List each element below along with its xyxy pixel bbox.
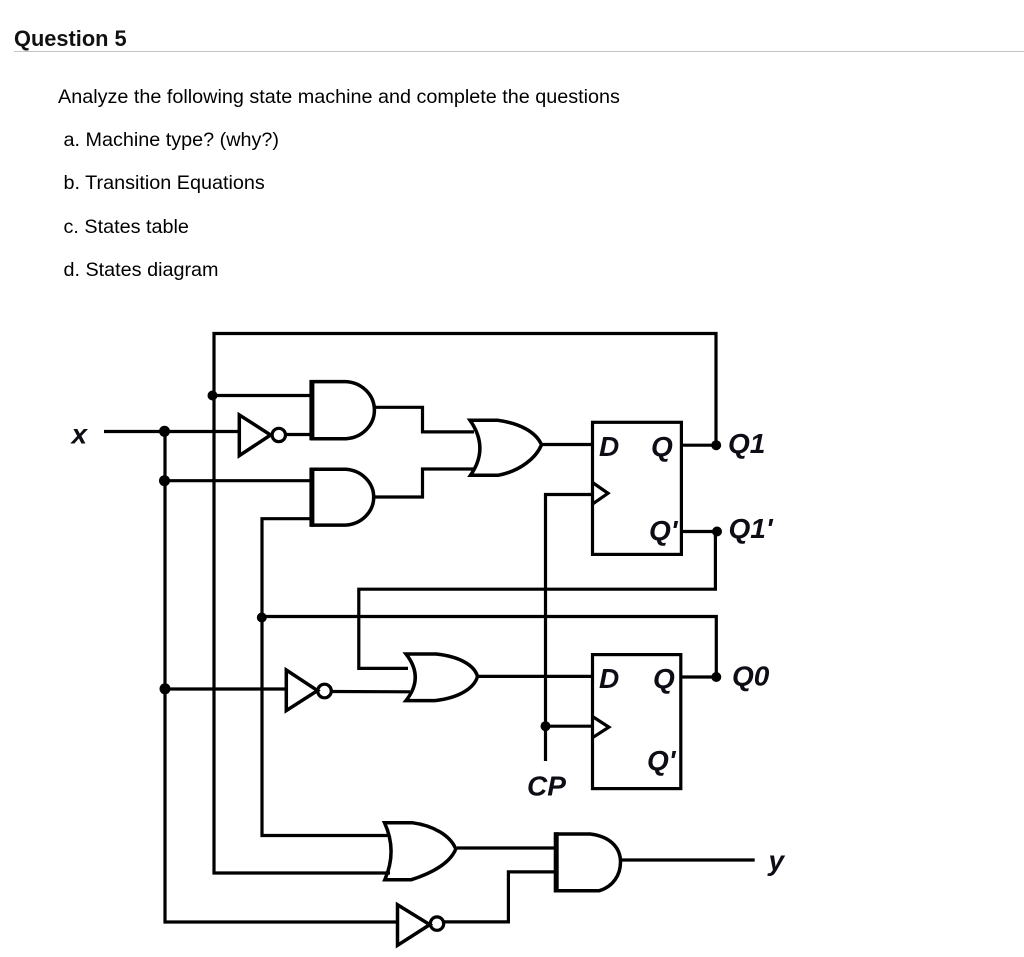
wire: x branch to inverter U2 xyxy=(165,687,288,690)
wire: OR3 output to AND3 top input xyxy=(457,846,555,849)
svg-text:CP: CP xyxy=(527,771,566,802)
junction dot Q0 feedback xyxy=(257,613,267,623)
svg-text:Q': Q' xyxy=(649,515,679,546)
junction dot Q1 feedback xyxy=(208,391,218,401)
wire: inverter U1 output to AND1 bottom input xyxy=(286,433,313,436)
wire: Q1 feedback (top loop from Q1 node to OR3 bottom input) xyxy=(214,334,716,874)
wire: AND3 output to y xyxy=(620,858,755,861)
wire: inverter U2 output to OR2 bottom input xyxy=(331,690,410,693)
junction dot on x input xyxy=(159,426,170,437)
svg-text:Q0: Q0 xyxy=(732,661,770,692)
D flip-flop FF2 xyxy=(593,655,681,789)
svg-text:Q1': Q1' xyxy=(729,513,774,544)
wire: FF2 Q output xyxy=(681,675,717,678)
svg-text:y: y xyxy=(767,845,786,876)
D flip-flop FF1 xyxy=(593,422,682,554)
wire: branch to AND1 top input xyxy=(214,394,312,397)
wire: Q1' feedback to OR2 top input xyxy=(359,532,716,669)
svg-text:D: D xyxy=(599,431,619,462)
OR gate O2 xyxy=(406,654,478,701)
junction dot Q0 xyxy=(711,672,721,682)
inverter U2 xyxy=(286,670,331,711)
OR gate O3 xyxy=(385,823,456,880)
junction dot Q1' xyxy=(712,527,722,537)
OR gate O1 xyxy=(470,420,542,475)
inverter U3 xyxy=(398,905,444,946)
svg-text:D: D xyxy=(599,663,619,694)
svg-text:Q: Q xyxy=(651,431,673,462)
wire: Q0 feedback line xyxy=(262,617,717,678)
wire: x branch to AND2 top input xyxy=(165,479,312,482)
wire: OR1 output to FF1 D input xyxy=(542,443,593,446)
wire: Q0 vertical bus AND2 input to OR3 top input xyxy=(262,519,390,836)
AND gate A2 xyxy=(312,469,374,525)
wire: FF1 Q output xyxy=(681,444,716,447)
junction dot CP xyxy=(541,721,551,731)
wire: CP clock line xyxy=(546,495,593,762)
svg-text:x: x xyxy=(70,419,89,450)
wire: AND2 output to OR1 bottom input xyxy=(375,469,475,497)
junction dot x bus upper xyxy=(159,475,170,486)
wire: x vertical bus down to bottom inverter xyxy=(165,432,399,923)
inverter U1 xyxy=(239,415,285,456)
AND gate A3 xyxy=(556,834,621,891)
svg-text:Q: Q xyxy=(653,663,675,694)
paragraph xyxy=(58,86,620,109)
AND gate A1 xyxy=(312,382,374,439)
wire: FF1 Q' output xyxy=(681,530,717,533)
svg-text:Q': Q' xyxy=(647,745,677,776)
wire: AND3 bottom input from inverter U3 xyxy=(443,872,555,922)
wire: x input horizontal xyxy=(104,430,238,433)
heading xyxy=(14,26,127,52)
horizontal rule xyxy=(14,51,1024,53)
junction dot Q1 xyxy=(711,440,721,450)
wire: CP branch to FF2 clock xyxy=(546,725,593,728)
svg-text:Q1: Q1 xyxy=(728,428,765,459)
wire: AND1 output to OR1 top input xyxy=(375,407,474,432)
junction dot x bus lower xyxy=(160,683,171,694)
wire: OR2 output to FF2 D input xyxy=(478,675,593,678)
